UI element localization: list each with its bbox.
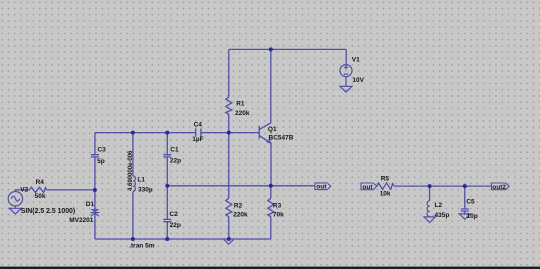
svg-text:L1: L1 [137,176,145,183]
svg-text:Q1: Q1 [268,126,277,133]
svg-text:22p: 22p [170,157,181,164]
svg-text:R4: R4 [36,179,45,186]
capacitor C2 [163,219,171,221]
junction L1/base row [131,131,135,135]
wire right circuit row [394,185,491,187]
wire collector rail [270,49,272,122]
svg-text:R3: R3 [273,203,282,210]
svg-text:C1: C1 [170,146,179,153]
capacitor C4 [196,128,201,136]
voltage source V1 [340,65,352,87]
wire base row [95,132,259,134]
resistor R1 [226,97,232,114]
junction C5/output row [463,184,467,188]
svg-text:D1: D1 [86,201,95,208]
resistor R5 [377,183,394,189]
svg-text:out: out [362,184,373,191]
svg-text:out2: out2 [492,184,506,191]
wire L2 lead [429,186,431,217]
svg-text:220k: 220k [235,110,250,117]
node out flag (source side) [361,183,377,191]
svg-text:L2: L2 [435,202,443,209]
capacitor C1 [163,155,171,157]
bottom window border [0,267,540,269]
svg-text:10V: 10V [352,77,364,84]
junction C2/bottom rail [165,237,169,241]
ground (L2) [424,217,435,223]
svg-text:MV2201: MV2201 [69,217,94,224]
svg-text:.tran 5m: .tran 5m [129,243,155,250]
svg-text:4.690000e-006: 4.690000e-006 [128,150,134,191]
ground (V1) [340,86,352,92]
svg-text:C2: C2 [169,211,178,218]
wire V1 drop [345,49,347,64]
junction R4/C3-D1 rail [93,188,97,192]
ground (R2 bottom) [224,240,234,245]
svg-text:BC547B: BC547B [269,135,294,142]
svg-text:50k: 50k [35,193,46,200]
svg-text:435p: 435p [435,212,450,219]
resistor R2 [226,198,232,217]
svg-text:V2: V2 [20,186,28,193]
wire bottom rail [95,238,271,240]
node out2 flag [492,183,510,191]
junction C1-C2/emitter row [165,184,169,188]
svg-text:10p: 10p [467,213,478,220]
svg-text:V1: V1 [352,56,360,63]
svg-text:220k: 220k [233,212,248,219]
wire C1/C2 rail [166,133,168,239]
svg-text:R5: R5 [381,176,390,183]
svg-text:SIN(2.5 2.5 1000): SIN(2.5 2.5 1000) [21,208,75,215]
wire emitter row [167,185,314,187]
ground (V2) [9,208,21,214]
resistor R4 [30,187,47,192]
inductor L2 [427,201,430,217]
junction L1/bottom rail [131,237,135,241]
diode D1 [91,209,100,216]
capacitor C5 [461,209,469,211]
junction collector/top rail [269,47,273,51]
junction R1-R2/base row [227,131,231,135]
ground (C5) [459,214,470,219]
voltage source V2 [8,192,22,209]
svg-text:R1: R1 [236,100,245,107]
node out flag [315,183,331,191]
svg-text:5p: 5p [97,158,105,165]
svg-text:1µF: 1µF [192,136,203,143]
svg-text:C4: C4 [194,121,203,128]
wire R1-R2 rail [228,49,230,239]
wire top rail [229,48,346,50]
svg-text:70k: 70k [273,212,284,219]
wire L1 rail [132,133,134,239]
resistor R3 [268,198,274,217]
svg-text:330µ: 330µ [138,186,153,193]
svg-text:C5: C5 [466,198,475,205]
svg-text:C3: C3 [97,146,106,153]
junction C1/base row [165,131,169,135]
svg-text:10k: 10k [380,190,391,197]
svg-text:out: out [316,184,327,191]
wire R4 to rail [15,190,95,192]
svg-text:22p: 22p [170,222,181,229]
junction emitter/R3 [269,184,273,188]
transistor Q1 [259,123,271,143]
wire C5 leads [464,186,466,214]
junction R2/bottom rail [227,237,231,241]
inductor L1 [133,176,136,192]
junction L2/output row [428,184,432,188]
wire C3/D1 rail [94,133,96,239]
wire R3 branch [270,186,272,239]
svg-text:R2: R2 [234,203,243,210]
capacitor C3 [91,155,99,157]
wire emitter rail [270,143,272,186]
